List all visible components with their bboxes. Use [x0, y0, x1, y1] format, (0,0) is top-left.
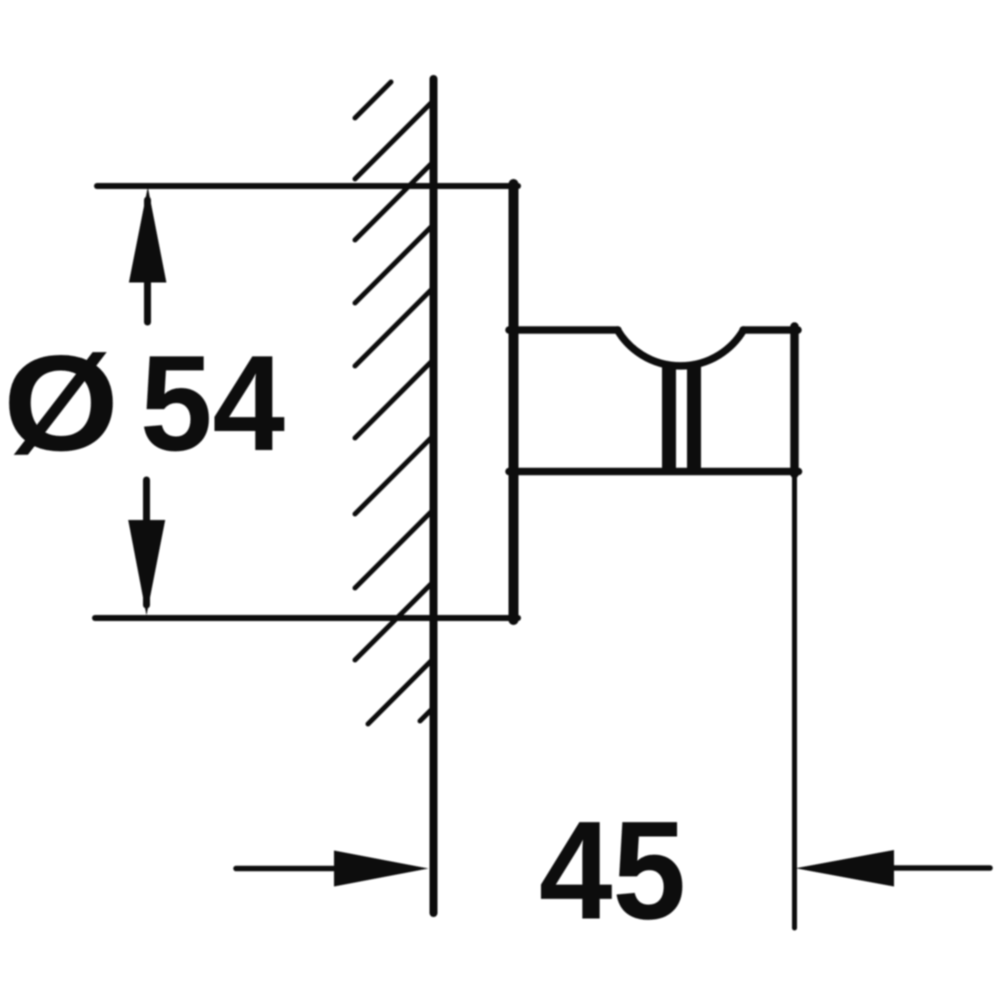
svg-text:54: 54 — [140, 327, 285, 479]
up arrow shaft — [144, 200, 151, 322]
hatch line 1 (top, clipped) — [355, 82, 391, 118]
svg-text:Ø: Ø — [3, 327, 119, 479]
hatch line 8 — [355, 510, 433, 588]
knob concave arc — [618, 330, 744, 366]
hatch line 2 — [355, 101, 433, 179]
hatch line 6 — [355, 360, 433, 438]
knob bottom edge — [509, 468, 799, 476]
knob top edge left segment — [509, 326, 618, 334]
plate right edge — [509, 184, 519, 620]
left arrowhead — [796, 850, 895, 887]
down arrow shaft — [143, 480, 150, 605]
up arrowhead — [129, 187, 167, 283]
hatch line 7 — [355, 436, 433, 514]
right arrow shaft — [236, 866, 340, 872]
hatch line 4 — [355, 225, 433, 303]
groove bar left — [662, 364, 676, 475]
right arrowhead — [334, 851, 429, 887]
knob right edge — [790, 327, 799, 475]
wall line — [430, 79, 438, 913]
hatch line 3 — [355, 162, 433, 240]
hatch line 5 — [355, 288, 433, 366]
knob top edge right segment — [743, 326, 798, 334]
hatch line 11 (stub) — [420, 708, 433, 721]
down arrowhead — [128, 520, 165, 616]
top extension/dimension line — [97, 183, 518, 189]
bottom extension/dimension line — [95, 615, 518, 621]
hatch line 10 (bottom, clipped) — [368, 659, 433, 724]
left arrow shaft — [890, 865, 990, 871]
groove bar right — [687, 364, 701, 475]
hatch line 9 — [355, 582, 433, 660]
svg-text:45: 45 — [539, 792, 686, 949]
right extension line — [792, 474, 797, 928]
